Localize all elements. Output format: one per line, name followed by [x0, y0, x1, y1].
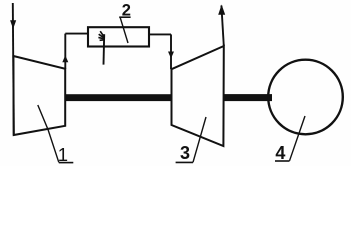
svg-text:3: 3	[180, 143, 190, 163]
svg-text:1: 1	[58, 144, 68, 165]
svg-text:2: 2	[122, 2, 131, 20]
svg-text:4: 4	[275, 143, 285, 163]
